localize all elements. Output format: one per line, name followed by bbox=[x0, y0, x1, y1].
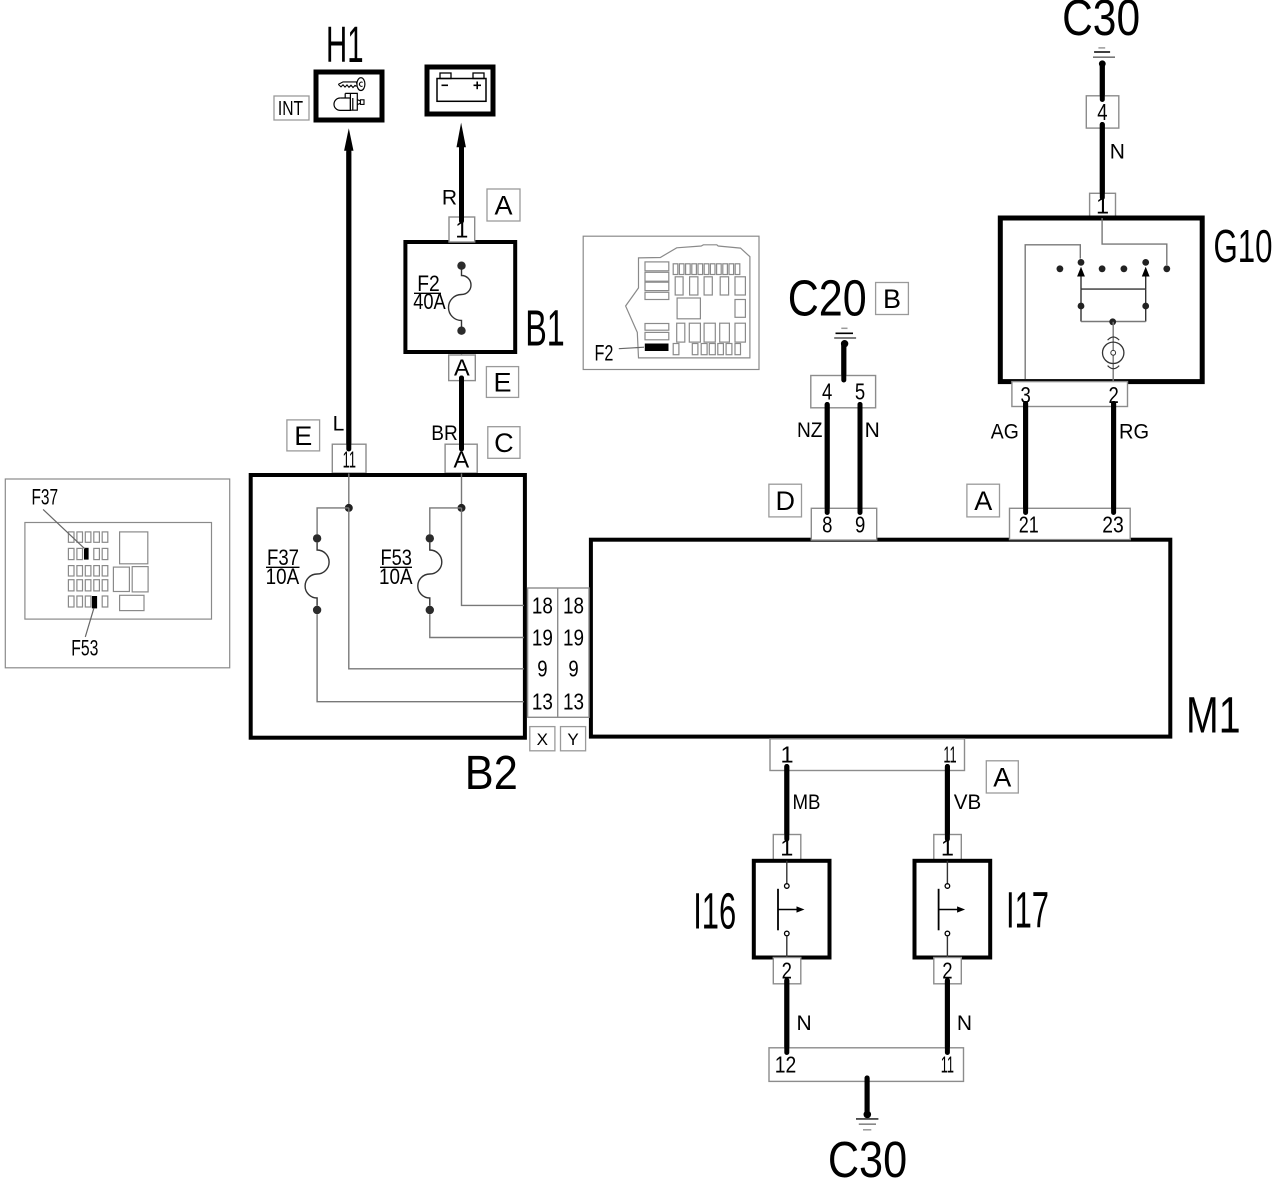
wire overdraw layer (caps visible inside connector boxes) bbox=[349, 64, 1114, 1111]
label F37 (inset) bbox=[43, 509, 85, 548]
fuse F53 10A bbox=[379, 534, 442, 614]
B2 internal wire from pin 11 bbox=[348, 474, 350, 508]
svg-text:I17: I17 bbox=[1006, 882, 1049, 939]
wire VB overdraw bbox=[945, 767, 950, 840]
svg-text:C: C bbox=[494, 428, 514, 458]
wire to ground C30 bbox=[865, 1078, 870, 1111]
svg-text:D: D bbox=[775, 486, 795, 516]
wire N from I17 bbox=[947, 981, 972, 1053]
inset fusebox location drawing for F2 bbox=[583, 236, 759, 369]
svg-text:9: 9 bbox=[537, 656, 547, 682]
label F2 (inset) bbox=[619, 347, 644, 349]
svg-text:H1: H1 bbox=[326, 16, 364, 73]
wire BR from B1 to B2 bbox=[431, 378, 461, 449]
svg-text:40A: 40A bbox=[413, 289, 446, 314]
wire F53 to row 19 bbox=[430, 614, 524, 637]
label box A (M1 bottom) bbox=[986, 761, 1018, 793]
wire L from B2 pin 11 up to H1 (arrow) bbox=[333, 128, 354, 449]
wire N I17 overdraw bbox=[945, 981, 950, 1053]
internal wire left branch to pin 3 bbox=[1025, 245, 1080, 379]
svg-text:4: 4 bbox=[822, 379, 832, 405]
ignition barrel icon bbox=[340, 93, 357, 110]
svg-text:12: 12 bbox=[775, 1052, 797, 1078]
svg-text:B: B bbox=[883, 284, 901, 314]
svg-text:F37: F37 bbox=[32, 485, 59, 510]
label box A (G10 wires) bbox=[967, 484, 1000, 517]
wire N (C20 pin5) bbox=[860, 405, 880, 513]
wire N C30 overdraw bbox=[1100, 125, 1105, 198]
wire R from B1 pin 1 up to battery (arrow) bbox=[442, 123, 466, 221]
svg-text:M1: M1 bbox=[1186, 687, 1241, 744]
svg-text:N: N bbox=[797, 1012, 812, 1035]
label box C (wire BR) bbox=[488, 427, 520, 459]
connector X/Y between B2 and M1 bbox=[528, 588, 589, 717]
wire to fuse F37 bbox=[317, 508, 349, 535]
svg-text:C20: C20 bbox=[788, 269, 867, 326]
wire N I16 overdraw bbox=[784, 981, 789, 1053]
wire NZ overdraw bbox=[825, 405, 830, 513]
wire ground C30 to connector 4 bbox=[1100, 64, 1105, 100]
pin 2 of I17 bbox=[934, 958, 962, 984]
svg-text:1: 1 bbox=[781, 742, 794, 768]
svg-text:L: L bbox=[333, 412, 345, 435]
internal wire from pin 1 bbox=[1102, 218, 1167, 265]
pin 1 of I17 bbox=[934, 835, 962, 861]
wire RG bbox=[1114, 404, 1149, 513]
switch I17 bbox=[915, 861, 991, 958]
svg-text:RG: RG bbox=[1119, 421, 1149, 444]
fuse F37 location (black) bbox=[84, 548, 89, 560]
connector pins 1/11 at M1 bottom bbox=[770, 739, 965, 771]
connector label INT bbox=[274, 96, 309, 120]
svg-text:X: X bbox=[537, 730, 548, 749]
wire RG overdraw bbox=[1111, 404, 1116, 513]
svg-text:C30: C30 bbox=[1062, 0, 1140, 46]
wire R overdraw bbox=[459, 148, 464, 221]
label box D bbox=[769, 484, 802, 517]
inset fusebox location drawing for F37/F53 bbox=[5, 479, 229, 668]
fuse F2 element bbox=[449, 270, 472, 328]
svg-text:MB: MB bbox=[793, 791, 821, 814]
wire pinA junction to row 18 bbox=[462, 508, 525, 606]
svg-text:9: 9 bbox=[568, 656, 578, 682]
wire N C20 overdraw bbox=[858, 405, 863, 513]
switch contact arrow right bbox=[1142, 267, 1150, 277]
svg-text:I16: I16 bbox=[693, 883, 736, 940]
svg-text:21: 21 bbox=[1019, 512, 1039, 538]
svg-text:F2: F2 bbox=[595, 341, 614, 366]
connector pins 12/11 (ground) bbox=[769, 1048, 964, 1082]
label box E (left of B2 pin 11) bbox=[287, 420, 320, 451]
instrument cluster G10 bbox=[1000, 218, 1202, 382]
svg-text:VB: VB bbox=[954, 791, 982, 814]
label box A (battery wire) bbox=[487, 189, 520, 221]
svg-text:F53: F53 bbox=[71, 636, 98, 661]
svg-text:9: 9 bbox=[855, 512, 865, 538]
svg-text:18: 18 bbox=[532, 592, 553, 618]
wire AG overdraw bbox=[1023, 404, 1028, 513]
connector A pins 21/23 on M1 bbox=[1010, 508, 1131, 539]
ground C20 bbox=[834, 328, 856, 347]
svg-text:NZ: NZ bbox=[797, 419, 823, 442]
wire L overdraw bbox=[346, 152, 351, 449]
B2 internal wire junction node (pin A) bbox=[458, 504, 466, 512]
svg-text:N: N bbox=[957, 1012, 972, 1035]
wire BR overdraw bbox=[459, 378, 464, 449]
svg-text:C30: C30 bbox=[828, 1131, 907, 1181]
svg-text:10A: 10A bbox=[266, 564, 300, 589]
wire MB bbox=[787, 767, 821, 840]
pin 1 of G10 bbox=[1090, 193, 1116, 219]
svg-text:E: E bbox=[294, 421, 312, 451]
svg-text:AG: AG bbox=[991, 421, 1019, 444]
svg-text:A: A bbox=[993, 762, 1011, 792]
pin 1 of I16 bbox=[773, 835, 801, 861]
svg-text:E: E bbox=[493, 368, 511, 398]
connector label X bbox=[530, 727, 555, 751]
pin 1 of B1 bbox=[449, 216, 475, 242]
ECU M1 bbox=[591, 540, 1170, 737]
label box E (right of B1 pin A) bbox=[486, 367, 518, 398]
pin 11 of B2 bbox=[332, 444, 366, 473]
component H1 ignition switch box bbox=[316, 72, 382, 120]
label box B (C20) bbox=[876, 283, 909, 315]
svg-text:10A: 10A bbox=[379, 564, 413, 589]
svg-text:A: A bbox=[974, 486, 992, 516]
battery component box bbox=[427, 67, 493, 114]
svg-text:A: A bbox=[494, 191, 512, 221]
connector C20 pins 4/5 bbox=[811, 376, 876, 408]
contact dots row bbox=[1057, 265, 1064, 272]
connector D pins 8/9 on M1 bbox=[811, 508, 876, 540]
wire F37 to row 13 bbox=[317, 614, 524, 702]
key icon bbox=[338, 82, 356, 88]
fuse box B1 with fuse F2 40A bbox=[405, 242, 515, 355]
label F53 (inset) bbox=[85, 608, 94, 637]
wire MB overdraw bbox=[784, 767, 789, 840]
fuse box B2 bbox=[251, 475, 525, 738]
connector label Y bbox=[561, 727, 586, 751]
lamp symbol bbox=[1112, 322, 1114, 381]
wire N from I16 bbox=[787, 981, 812, 1053]
svg-text:Y: Y bbox=[567, 730, 578, 749]
wire AG bbox=[991, 404, 1026, 513]
connector box 4 (C30 branch) bbox=[1086, 96, 1119, 128]
fuse F53 location (black) bbox=[92, 596, 97, 608]
svg-text:BR: BR bbox=[431, 422, 458, 445]
wire pin11 junction to row 9 bbox=[349, 508, 524, 669]
svg-text:18: 18 bbox=[563, 592, 584, 618]
pins 3/2 of G10 bbox=[1012, 382, 1128, 408]
svg-text:13: 13 bbox=[532, 689, 553, 715]
svg-text:N: N bbox=[865, 419, 880, 442]
svg-text:11: 11 bbox=[941, 1052, 954, 1078]
wire ground to C20 connector bbox=[841, 344, 846, 380]
wire ground C30 bottom overdraw bbox=[865, 1078, 870, 1111]
wire N to G10 pin 1 bbox=[1102, 125, 1125, 198]
svg-text:19: 19 bbox=[532, 624, 553, 650]
svg-text:B2: B2 bbox=[465, 747, 518, 800]
svg-text:B1: B1 bbox=[525, 300, 565, 357]
svg-text:INT: INT bbox=[278, 98, 303, 120]
pin 2 of I16 bbox=[773, 958, 801, 984]
wire NZ bbox=[797, 405, 827, 513]
fuse F37 10A bbox=[266, 534, 329, 614]
svg-text:N: N bbox=[1110, 141, 1125, 164]
pin A of B2 bbox=[445, 444, 477, 473]
ground C30 bottom bbox=[856, 1111, 878, 1130]
wire to fuse F53 bbox=[430, 508, 462, 535]
pin A of B1 bbox=[449, 355, 476, 381]
svg-text:G10: G10 bbox=[1214, 220, 1273, 272]
switch contact arrow left bbox=[1077, 267, 1085, 277]
switch I16 bbox=[754, 861, 830, 958]
svg-text:R: R bbox=[442, 187, 457, 210]
wire C20 ground overdraw bbox=[841, 344, 846, 380]
internal resistor network lines bbox=[1081, 288, 1146, 290]
wire C30 ground overdraw bbox=[1100, 64, 1105, 100]
svg-text:13: 13 bbox=[563, 689, 584, 715]
svg-text:5: 5 bbox=[855, 379, 865, 405]
svg-text:23: 23 bbox=[1102, 512, 1124, 538]
ground C30 top bbox=[1093, 48, 1115, 67]
svg-text:4: 4 bbox=[1097, 99, 1107, 125]
fuse F2 location (black) bbox=[645, 344, 669, 352]
B2 internal wire from pin A bbox=[461, 474, 463, 508]
wire VB bbox=[947, 767, 981, 840]
svg-text:8: 8 bbox=[822, 512, 832, 538]
B2 internal wire junction node (pin 11) bbox=[345, 504, 353, 512]
svg-text:11: 11 bbox=[943, 742, 956, 768]
svg-text:19: 19 bbox=[563, 624, 584, 650]
